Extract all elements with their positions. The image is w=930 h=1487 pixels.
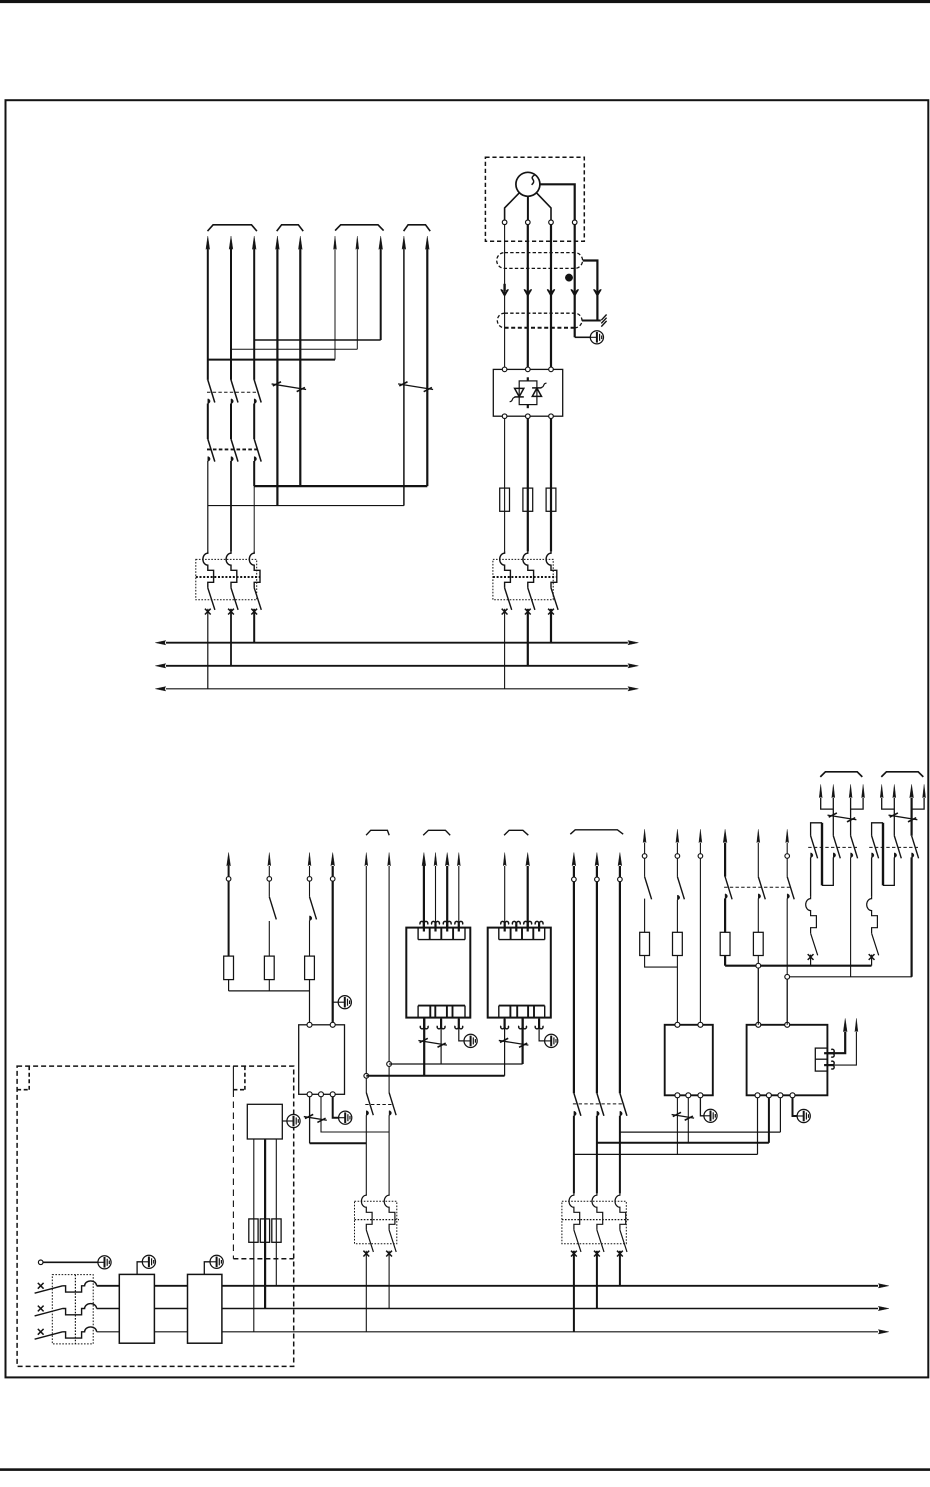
wire Q4 pole2 to bus L2 — [596, 1251, 598, 1309]
feeder link (thin) to R-branch — [787, 976, 912, 978]
wire converter G1 in 1 — [423, 865, 425, 928]
wire breaker Q2 pole3 to bus L1 — [550, 609, 552, 643]
wire U5 out 4 to PE7 — [793, 1098, 798, 1116]
protective earth terminal PE10 — [142, 1255, 155, 1268]
terminal feeder F3 — [698, 854, 703, 859]
wire converter G1 in 4 — [458, 866, 460, 928]
wire F3 vertical — [699, 843, 701, 854]
switch F2 — [677, 877, 684, 900]
motor frame lead — [540, 184, 575, 220]
arrow converter G2 wire 1 — [503, 853, 506, 866]
wire distribution 1 vertical — [573, 866, 575, 877]
aux unit wire 2 — [264, 1139, 266, 1219]
wire breaker Q1 pole2 to bus L2 — [230, 609, 232, 666]
isolator pair, aux circuit pole 1 — [366, 1093, 373, 1116]
wire distribution 2 vertical — [596, 866, 598, 877]
aux unit wire 3 — [275, 1139, 277, 1219]
arrow R1 wire 1 — [819, 784, 822, 797]
wire P3 continues to box U5 — [786, 979, 788, 1025]
wire lighting 3 to module U3 — [309, 980, 311, 1025]
arrow, wire 5 to sheet — [298, 236, 302, 249]
wire G2 out 1 — [504, 1018, 506, 1076]
module G2 input terminal strip — [499, 939, 545, 941]
control transformer T11 — [188, 1274, 222, 1343]
terminal, lighting wire 1 — [226, 877, 231, 882]
bus L2 (upper) — [166, 665, 628, 667]
wire breaker Q1 pole1 to bus L3 — [207, 609, 209, 689]
bus L2 (lower) — [97, 1308, 878, 1310]
flow arrow wire W — [547, 290, 555, 295]
wire U5 out 2 to link L2 — [768, 1098, 770, 1143]
box U4 terminal out 2 — [686, 1093, 691, 1098]
module G1 output arrow 2 — [437, 1019, 445, 1029]
link line B — [366, 1075, 504, 1077]
power supply module U3 box — [299, 1025, 345, 1095]
soft starter terminal 5L3 — [549, 367, 554, 372]
disconnect switch U4 output — [672, 1115, 695, 1119]
bracket, converter G1 feeders — [423, 830, 450, 835]
motor terminal W — [549, 220, 554, 225]
wire R2 pole C to thin link — [910, 857, 912, 976]
disconnect switch S4, wires 9-10 — [398, 384, 433, 390]
cable bracket, feeder group 2 — [277, 225, 304, 231]
arrow distribution wire 1 — [572, 853, 576, 866]
wire G1 out 3 — [459, 1018, 464, 1041]
module G2 input arrow 4 — [535, 921, 543, 931]
breaker Q1 pole 1 — [203, 551, 214, 587]
cable shield 1 (dashed stadium) — [497, 253, 583, 269]
signal wire 2 — [827, 1031, 856, 1065]
wire 7 vertical — [356, 248, 358, 349]
box U4 terminal in 1 — [675, 1022, 680, 1027]
box U5 terminal out 3 — [778, 1093, 783, 1098]
link line L1 cross — [620, 1131, 781, 1133]
connector terminal on thick link — [756, 963, 761, 968]
motor terminal U — [502, 220, 507, 225]
converter module G1 box — [406, 928, 470, 1018]
wire aux 1 to breaker Q3 — [365, 1115, 367, 1193]
breaker Q2 pole 2 — [523, 551, 534, 587]
disconnect switch G1 output — [418, 1041, 447, 1046]
link line L2 cross — [597, 1142, 769, 1144]
breaker Q2 enclosure — [493, 559, 553, 599]
switch R1 pole A — [811, 836, 818, 859]
isolator pair, aux circuit pole 2 — [389, 1093, 396, 1116]
page bottom rule — [0, 1468, 930, 1471]
contactor K1 pole 1 — [208, 380, 215, 403]
wire R1 breaker to link — [810, 955, 812, 966]
wire U5 out 1 to link L3 — [757, 1098, 759, 1155]
module G2 output arrow 1 — [501, 1019, 509, 1029]
series top link R2 — [872, 823, 883, 836]
soft starter U10 box — [493, 369, 562, 416]
bus L1 (upper) — [166, 642, 628, 644]
module U3 terminal out 1 — [307, 1092, 312, 1097]
terminal feeder F2 — [675, 854, 680, 859]
breaker Q4 enclosure — [562, 1201, 626, 1243]
isolator trio pole 1 — [574, 1093, 581, 1116]
terminal feeder P3 — [785, 854, 790, 859]
arrow, wire 6 to sheet — [334, 236, 337, 249]
breaker Q1 trip bar — [196, 576, 260, 578]
terminal, lighting wire 2 — [267, 877, 272, 882]
bracket, converter G2 feeders — [504, 830, 528, 835]
bus L3 (lower) — [97, 1331, 878, 1333]
bus L2 right arrow — [878, 1306, 889, 1310]
fuse F2 — [523, 488, 533, 511]
arrow, wire 2 to sheet — [229, 236, 233, 249]
protective earth terminal PE1 — [590, 331, 603, 344]
arrow converter G1 wire 4 — [457, 853, 460, 866]
wire distribution 1 to breaker Q4 — [573, 1116, 575, 1194]
module U3 terminal in 1 — [307, 1022, 312, 1027]
wire G1 out 1 — [423, 1018, 425, 1076]
module U3 terminal out 2 — [319, 1092, 324, 1097]
soft starter terminal 3L2 — [526, 367, 531, 372]
wire R1 3 upper — [850, 798, 852, 836]
wire lighting 1 to fuse — [228, 881, 230, 956]
wire fuse F1 to breaker Q2 — [504, 488, 506, 551]
disconnect switch S2, wires 4-5 — [272, 384, 307, 390]
soft starter terminal 4T2 — [526, 414, 531, 419]
breaker Q4 pole 2 — [592, 1193, 603, 1230]
wire lighting 2 to fuse — [268, 921, 270, 956]
arrow lighting wire 3 — [308, 853, 311, 866]
wire G2 out 2 — [521, 1018, 523, 1064]
wire distribution 3 to breaker Q4 — [619, 1116, 621, 1194]
wire Q4 pole1 to bus L3 — [573, 1251, 575, 1332]
bus L1 (lower) — [97, 1285, 878, 1287]
module G2 input arrow 1 — [501, 921, 509, 931]
wire converter G2 in 3 — [527, 866, 529, 928]
switch trio pole P3 — [786, 843, 788, 854]
wire Q4 pole3 to bus L1 — [619, 1251, 621, 1286]
bus L3 right arrow — [628, 687, 639, 691]
soft starter terminal 2T1 — [502, 414, 507, 419]
cable bracket, feeder group 1 — [208, 225, 257, 231]
wire R2 pole A to breaker — [871, 857, 873, 896]
wire 6 vertical — [334, 248, 336, 360]
incoming breaker Q0 pole L1 — [63, 1281, 97, 1292]
sub-cabinet enclosure (dashed) — [232, 1066, 234, 1090]
module G2 output terminal strip — [499, 1005, 545, 1007]
aux wire 2 to bus L2 — [264, 1219, 266, 1309]
bracket, branch group R1 — [820, 772, 862, 777]
module G2 output arrow 2 — [519, 1019, 527, 1029]
arrow converter G2 wire 3 — [526, 853, 530, 866]
box U5 terminal in 2 — [785, 1022, 790, 1027]
switch R2 pole C — [912, 836, 919, 859]
terminal, lighting wire 4 — [330, 877, 335, 882]
contactor K1 pole 3 — [254, 380, 261, 403]
wire distribution 2 to breaker Q4 — [596, 1116, 598, 1194]
arrow R1 wire 4 — [862, 784, 865, 797]
wire U4 out 1 to link L3 — [676, 1098, 678, 1155]
wire breaker Q2 pole1 to bus L3 — [504, 609, 506, 689]
wire 4 vertical — [276, 248, 278, 506]
jumper wire 3 to wire 8 — [254, 339, 381, 341]
module G1 output terminal strip — [418, 1005, 465, 1007]
wire lighting 4 vertical — [332, 866, 334, 876]
soft starter bottom stub — [527, 405, 529, 409]
contactor K1 linkage — [207, 391, 259, 393]
wire U3 out 2 — [321, 1097, 389, 1132]
protective earth terminal PE3 — [464, 1034, 477, 1047]
wire U5 out 3 to link L1 — [779, 1098, 781, 1132]
disconnect switch U3 output — [304, 1117, 327, 1121]
thyristor V1 (conducting down) — [515, 388, 524, 396]
soft starter top stub — [527, 377, 529, 381]
soft starter terminal 6T3 — [549, 414, 554, 419]
switch R1 pole C — [851, 836, 858, 859]
arrow feeder P2 — [757, 829, 760, 842]
jumper wire 2 to wire 7 — [231, 348, 357, 350]
protective earth terminal PE7 — [797, 1109, 810, 1122]
bus L1 left arrow — [155, 641, 166, 645]
wire aux 2 to breaker Q3 — [388, 1115, 390, 1193]
motor lead V — [527, 196, 529, 220]
isolator trio pole 3 — [620, 1093, 627, 1116]
terminal, lighting wire 3 — [307, 877, 312, 882]
fuse F11 — [224, 956, 234, 980]
motor terminal V — [526, 220, 531, 225]
stub to PE2 — [333, 1001, 339, 1003]
wire R1 pole A to breaker — [810, 857, 812, 896]
breaker Q2 trip bar — [493, 576, 556, 578]
wire 3 to breaker Q1 — [253, 486, 255, 551]
wire lighting 1 below fuse — [228, 980, 230, 991]
wire 2 to breaker Q1 — [230, 461, 232, 551]
switch R2 pole B — [894, 836, 901, 859]
box U4 terminal in 2 — [698, 1022, 703, 1027]
wire P1 below fuse — [724, 956, 726, 966]
control transformer T10 — [119, 1274, 154, 1343]
bracket, distribution feeder trio — [570, 830, 623, 834]
disconnect switch R1 — [828, 815, 857, 820]
sub-cabinet corner tab — [244, 1066, 246, 1090]
motor terminal PE — [572, 220, 577, 225]
series link R1 — [822, 857, 833, 885]
module U3 terminal in 2 — [330, 1022, 335, 1027]
link line L3 cross — [574, 1153, 758, 1155]
wire 2 vertical — [230, 248, 232, 380]
signal wire 1 (thick) — [827, 1031, 845, 1053]
shield 2 to chassis ground link — [582, 320, 601, 322]
cable bracket, feeder group 3 — [335, 225, 384, 231]
module G2 input arrow 2 — [512, 921, 520, 931]
breaker Q3 pole 1 — [361, 1193, 372, 1230]
series top link R1 — [811, 823, 822, 836]
protective earth terminal PE11 — [210, 1255, 223, 1268]
bus L3 right arrow — [878, 1330, 889, 1334]
link to PE9 — [43, 1261, 98, 1263]
isolator trio linkage — [573, 1103, 624, 1105]
wire F1 upper — [644, 843, 646, 854]
wire R2 3 upper — [910, 798, 912, 836]
breaker Q1 pole 3 — [249, 551, 260, 587]
wire F1 below fuse — [645, 956, 678, 968]
fuse F22 — [673, 932, 683, 955]
auxiliary supply unit box — [247, 1104, 282, 1139]
wire converter G2 in 1 — [504, 866, 506, 928]
wire F2 to fuse F22 — [676, 900, 678, 933]
switch trio linkage — [724, 886, 792, 888]
fuse F12 — [264, 956, 274, 980]
branch breaker R1 — [806, 897, 817, 933]
wire V below motor — [527, 225, 529, 370]
aux unit wire 1 — [253, 1139, 255, 1219]
wire U below motor — [504, 225, 506, 370]
wire P2 to fuse F24 — [757, 898, 759, 932]
wire converter G1 in 3 — [446, 866, 448, 928]
arrow converter G1 wire 2 — [434, 853, 437, 866]
module G1 output arrow 1 — [420, 1019, 428, 1029]
wire P2 to box U5 — [757, 956, 759, 1025]
contactor K2 pole 1 — [208, 439, 215, 462]
contactor K1 pole 2 — [231, 380, 238, 403]
wire converter G1 in 2 — [435, 866, 437, 928]
module G1 input arrow 1 — [420, 921, 428, 931]
wire aux feeder 2 vertical — [388, 866, 390, 1093]
branch breaker R2 — [867, 897, 878, 933]
box U5 terminal out 1 — [755, 1093, 760, 1098]
fuse F3 — [546, 488, 556, 511]
frame wire to PE link — [575, 336, 591, 338]
bus L3 (upper) — [166, 688, 628, 690]
box U5 — [747, 1025, 828, 1096]
connector terminal, link A — [387, 1062, 392, 1067]
terminal feeder F1 — [642, 854, 647, 859]
protective earth terminal PE6 — [704, 1109, 717, 1122]
terminal distribution 3 — [618, 877, 623, 882]
box U4 terminal out 3 — [698, 1093, 703, 1098]
flow arrow shield run — [594, 290, 602, 295]
breaker Q1 enclosure — [196, 559, 257, 599]
converter module G2 box — [488, 928, 551, 1018]
isolator pair linkage — [365, 1104, 393, 1106]
switch lighting 3 — [310, 897, 317, 920]
arrow lighting wire 4 — [331, 853, 335, 866]
arrow converter G1 wire 3 — [445, 853, 449, 866]
breaker Q3 enclosure — [355, 1201, 397, 1243]
contactor K2 pole 2 — [231, 439, 238, 462]
motor lead U — [505, 193, 520, 220]
protective earth terminal PE2 — [338, 996, 351, 1009]
cabinet enclosure (dashed) — [17, 1066, 294, 1366]
incoming terminal circle — [38, 1260, 43, 1265]
wire fuse F3 to breaker Q2 — [550, 488, 552, 551]
cable shield 2 bottom edge (heavy dashed) — [505, 327, 575, 329]
chassis ground symbol — [601, 321, 606, 327]
fuse F21 — [640, 932, 650, 955]
flow arrow wire V — [524, 290, 532, 295]
wire R2 2 upper — [893, 798, 895, 836]
module U3 terminal out 3 — [330, 1092, 335, 1097]
terminal block 2 — [260, 1219, 269, 1242]
wire F1 to fuse F21 — [644, 899, 646, 933]
arrow R1 wire 2 — [832, 784, 835, 797]
switch R1 pole B — [833, 836, 840, 859]
signal wire 2 arrow — [855, 1018, 858, 1031]
switch R2 linkage — [869, 846, 918, 848]
arrow R1 wire 3 — [849, 784, 852, 797]
arrow, wire 1 to sheet — [206, 236, 210, 249]
module G1 input arrow 4 — [455, 921, 463, 931]
bus L1 right arrow — [628, 641, 639, 645]
soft starter inner module — [519, 381, 537, 405]
link line A — [389, 1063, 522, 1065]
arrow feeder F3 — [699, 829, 702, 842]
arrow aux feeder 1 — [365, 853, 368, 866]
module G1 input arrow 2 — [432, 921, 440, 931]
wire Q3 pole2 to bus — [388, 1251, 390, 1309]
wire lighting 2 upper — [268, 866, 270, 876]
breaker Q1 pole 2 — [226, 551, 237, 587]
contactor K2 pole 3 — [254, 439, 261, 462]
wire 3 vertical — [253, 248, 255, 380]
wire R1 4 — [851, 798, 864, 810]
T10 stub to PE10 — [137, 1262, 142, 1275]
aux wire 1 to bus L3 — [253, 1219, 255, 1332]
arrow, wire 4 to sheet — [276, 236, 280, 249]
module G2 input arrow 3 — [524, 921, 532, 931]
arrow converter G1 wire 1 — [422, 853, 426, 866]
motor enclosure (dashed) — [485, 157, 584, 241]
jumper wire 1 to wire 6 — [208, 359, 335, 361]
wire R1 pole C to thin link — [850, 857, 852, 976]
arrow lighting wire 1 — [227, 853, 231, 866]
wire 3 between contactors — [253, 404, 255, 440]
wire Q3 pole1 to bus — [365, 1251, 367, 1332]
disconnect switch G2 output — [499, 1040, 529, 1045]
bus L1 right arrow — [878, 1284, 889, 1288]
signal arrow out 2 — [824, 1061, 834, 1069]
wire P1 to fuse F23 — [724, 898, 726, 932]
connector terminal on thin link — [785, 974, 790, 979]
protective earth terminal PE5 — [339, 1111, 352, 1124]
incoming breaker Q0 pole L2 — [63, 1304, 97, 1315]
switch F1 — [645, 877, 652, 900]
disconnect switch R2 — [889, 815, 918, 820]
page top rule — [0, 0, 930, 3]
motor frame ground wire — [574, 225, 576, 338]
series link R2 — [883, 857, 894, 885]
box U5 terminal in 1 — [756, 1022, 761, 1027]
wire F2 to box U4 — [676, 956, 678, 1025]
arrow R2 wire 3 — [910, 784, 914, 797]
breaker Q4 pole 1 — [569, 1193, 580, 1230]
wire lighting 3 upper — [309, 866, 311, 876]
bus L2 left arrow — [155, 664, 166, 668]
switch trio pole P2 — [757, 843, 759, 877]
motor lead W — [537, 193, 551, 220]
wire 9 vertical — [403, 248, 405, 506]
wire P2 continues to box U5 — [757, 968, 759, 1025]
wire soft starter to fuse F2 — [527, 419, 529, 489]
wire U3 out 3 to PE5 — [333, 1097, 339, 1118]
wire fuse F2 to breaker Q2 — [527, 488, 529, 551]
arrow distribution wire 3 — [618, 853, 622, 866]
contactor K2 linkage — [207, 448, 259, 450]
terminal block 3 — [272, 1219, 281, 1242]
wire 1 to breaker Q1 — [207, 461, 209, 551]
wire G1 out 2 — [440, 1018, 442, 1064]
arrow lighting wire 2 — [268, 853, 271, 866]
arrow feeder F2 — [676, 829, 679, 842]
arrow feeder F1 — [643, 829, 646, 842]
wire 1 between contactors — [207, 404, 209, 440]
wire distribution 3 vertical — [619, 866, 621, 877]
